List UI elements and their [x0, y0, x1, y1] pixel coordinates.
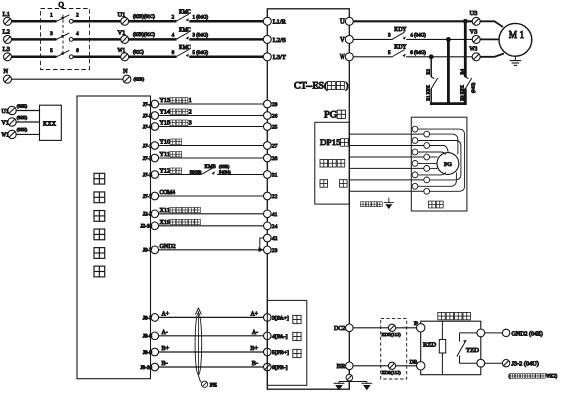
svg-text:B-: B- [162, 361, 168, 367]
svg-text:4: 4 [76, 31, 79, 37]
svg-text:RZD: RZD [423, 342, 437, 349]
svg-text:J8-8: J8-8 [143, 335, 153, 340]
terminal 25 [264, 123, 272, 131]
terminal W [345, 53, 353, 61]
vertical label micro-computer-control-unit [94, 173, 105, 184]
connector pin 6a [412, 183, 418, 189]
microcomputer control unit box [77, 96, 151, 379]
wire phase to KDY [353, 38, 392, 40]
svg-text:6: 6 [76, 48, 79, 54]
wire DC2 to P [353, 327, 417, 329]
wire Y11下行 [159, 157, 264, 159]
svg-text:V1: V1 [118, 30, 126, 37]
terminal L1/R [263, 17, 271, 25]
svg-text:B+: B+ [162, 346, 170, 352]
svg-text:J2-10: J2-10 [140, 225, 152, 230]
svg-text:2: 2 [76, 13, 79, 19]
wire Y10上行 [159, 145, 264, 147]
svg-text:V1: V1 [2, 120, 9, 126]
wire L3 to switch [12, 56, 57, 59]
svg-text:N: N [123, 68, 128, 75]
thermal switch TZD [460, 332, 481, 334]
branch A from W with contact R1 KFX [430, 57, 432, 77]
svg-text:26: 26 [272, 114, 278, 120]
terminal 41 [264, 210, 272, 218]
svg-text:BR: BR [337, 363, 347, 370]
terminal 6[PB-] [264, 363, 272, 371]
wire GND2 [159, 249, 264, 251]
terminal U1 [121, 17, 129, 25]
svg-text:A-: A- [162, 330, 168, 336]
svg-text:ZD5(11J): ZD5(11J) [382, 332, 402, 337]
resistor RZD [441, 321, 443, 339]
shorting vertical from V (thick) [447, 39, 450, 103]
svg-text:23: 23 [272, 248, 278, 254]
svg-text:N: N [4, 68, 9, 75]
svg-text:B-: B- [252, 361, 258, 367]
terminal U3 [472, 17, 480, 25]
wire Y13多段速1 [159, 103, 264, 105]
svg-text:DC2: DC2 [334, 325, 345, 332]
svg-text:KXX: KXX [43, 120, 57, 127]
wire U phase [353, 20, 472, 22]
svg-text:ZD3(11J): ZD3(11J) [382, 370, 402, 375]
connector pin 6b [424, 188, 430, 194]
wire KMC to L3 [189, 56, 263, 59]
svg-text:25: 25 [272, 125, 278, 131]
terminal GND2 (04E) [502, 329, 509, 336]
svg-text:J8-9: J8-9 [143, 351, 153, 356]
terminal J7-5 [151, 112, 159, 120]
svg-text:(01C): (01C) [133, 50, 144, 55]
vertical label fen-pin-ka [293, 315, 301, 323]
svg-text:R4: R4 [460, 68, 465, 74]
wire W1 to KXX [16, 133, 39, 135]
svg-text:(04G): (04G) [471, 82, 476, 93]
svg-text:53(83): 53(83) [190, 169, 202, 174]
terminal V1 to KXX [8, 118, 16, 126]
svg-text:J7-3: J7-3 [143, 173, 153, 178]
wire KDY to motor terminal [406, 38, 472, 40]
shorting branch from U with contact R3 KFX [464, 21, 467, 77]
box DP15 encoder interface [315, 122, 350, 204]
svg-text:(02B)(01C): (02B)(01C) [133, 15, 155, 20]
svg-text:U1: U1 [2, 109, 9, 115]
encoder wire 4 [349, 167, 424, 169]
inverter main box [267, 9, 349, 389]
wire KMC to L2 [189, 38, 263, 41]
terminal W1 to KXX [8, 130, 16, 138]
connector pin 4a [412, 161, 418, 167]
svg-text:COM4: COM4 [160, 189, 176, 196]
wire Y15多段速3 [159, 126, 264, 128]
svg-text:J8-7: J8-7 [143, 316, 153, 321]
svg-text:PG: PG [324, 110, 337, 120]
wire KDY to motor terminal [406, 56, 472, 58]
terminal DC2 [346, 324, 354, 332]
wire A+ [159, 316, 264, 318]
terminal N (02B) [123, 75, 131, 83]
svg-text:28: 28 [272, 156, 278, 162]
svg-text:42: 42 [272, 236, 278, 242]
terminal J8-8 [151, 332, 159, 340]
terminal ZD5(11J) [388, 324, 395, 331]
wire Y14多段速2 [159, 115, 264, 117]
svg-text:J7-2: J7-2 [143, 157, 153, 162]
svg-text:(03H): (03H) [17, 127, 28, 132]
shield drain wire to PE [198, 375, 201, 383]
svg-text:(02B): (02B) [134, 77, 145, 82]
terminal J2-2 [151, 210, 159, 218]
svg-text:CT--ES(: CT--ES( [294, 80, 327, 90]
svg-text:54(84): 54(84) [219, 170, 231, 175]
svg-text:27: 27 [272, 144, 278, 150]
encoder PG circle [437, 153, 459, 175]
svg-text:1: 1 [50, 13, 53, 19]
svg-text:J3-7: J3-7 [143, 249, 153, 254]
connector pin 1b [424, 131, 430, 137]
wire phase to KDY [353, 56, 392, 58]
svg-text:Q: Q [59, 0, 65, 9]
terminal 28 [264, 154, 272, 162]
svg-text:4 (04G): 4 (04G) [410, 34, 426, 39]
terminal 27 [264, 142, 272, 150]
svg-text:5[PB+]: 5[PB+] [272, 350, 289, 356]
connector pin 4b [424, 166, 430, 172]
svg-text:A+: A+ [162, 311, 170, 317]
svg-text:GND2 (04E): GND2 (04E) [512, 330, 543, 337]
terminal J8-10 [151, 363, 159, 371]
terminal U [345, 17, 353, 25]
terminal J3-7 [151, 246, 159, 254]
terminal J7-6 [151, 123, 159, 131]
svg-text:KDY: KDY [394, 27, 407, 33]
svg-text:KMC: KMC [179, 9, 191, 15]
svg-text:KMB: KMB [205, 164, 217, 170]
label connect-to-motor-case [361, 202, 366, 207]
svg-text:5: 5 [50, 48, 53, 54]
terminal L1 [4, 17, 12, 25]
wire V1 to KMC [129, 38, 177, 41]
ground symbol right [361, 382, 372, 384]
svg-text:3[PA+]: 3[PA+] [272, 315, 289, 321]
wire U1 to KXX [16, 110, 39, 112]
contact KMB [202, 167, 214, 174]
node TZD bottom [477, 359, 485, 367]
svg-text:): ) [345, 80, 348, 90]
svg-text:J7-5: J7-5 [143, 114, 153, 119]
wire V3 to motor [480, 38, 499, 40]
wire W3 to motor [480, 54, 504, 57]
wire switch to U21 [73, 38, 120, 41]
encoder wire 5 [349, 179, 424, 181]
terminal J8-9 [151, 348, 159, 356]
switch pole 1 [57, 15, 70, 21]
svg-text:L1: L1 [3, 11, 10, 18]
frequency divider card box [267, 300, 307, 385]
motor case ground symbol [388, 198, 390, 203]
encoder wire 3 [349, 156, 424, 158]
svg-text:3: 3 [189, 120, 192, 127]
label braking resistor [438, 312, 445, 319]
wire L1 to switch [12, 20, 57, 23]
shield cable ellipse [195, 313, 202, 375]
terminal W1 [121, 53, 129, 61]
terminal 24 [264, 222, 272, 230]
terminal 4[PA-] [264, 332, 272, 340]
terminal 22 [264, 192, 272, 200]
svg-text:1: 1 [189, 97, 192, 104]
wire L2 to switch [12, 38, 57, 41]
svg-text:KMC: KMC [179, 27, 191, 33]
Q linkage dashed line [62, 15, 64, 54]
terminal 42 [264, 234, 272, 242]
svg-text:B+: B+ [250, 346, 258, 352]
ground symbol left [334, 382, 345, 384]
shield box [411, 117, 467, 211]
svg-text:U3: U3 [470, 10, 479, 17]
wire V1 to KXX [16, 121, 39, 123]
terminal L2/S [263, 35, 271, 43]
svg-text:A-: A- [252, 330, 258, 336]
svg-text:W3: W3 [470, 46, 478, 53]
svg-text:R2: R2 [426, 68, 431, 74]
connector pin 3a [412, 149, 418, 155]
terminal W3 [472, 53, 480, 61]
terminal J7-2 [151, 154, 159, 162]
svg-text:1 (04G): 1 (04G) [193, 16, 209, 21]
junction dot V [446, 37, 451, 42]
svg-text:2: 2 [172, 15, 175, 21]
terminal BR [346, 362, 354, 370]
terminal J7-1 [151, 142, 159, 150]
terminal 23 [264, 246, 272, 254]
connector pin 5b [424, 177, 430, 183]
junction dot U [463, 19, 468, 24]
svg-text:Y13: Y13 [160, 97, 171, 104]
svg-text:DB: DB [410, 359, 418, 365]
svg-text:U: U [340, 19, 345, 26]
svg-text:29: 29 [272, 102, 278, 108]
filter box KXX [40, 105, 62, 140]
svg-text:R3 KFX: R3 KFX [460, 84, 465, 100]
svg-text:W1: W1 [2, 133, 9, 139]
wire N [12, 78, 123, 80]
connector pin 1a [412, 126, 418, 132]
encoder wire 6 [349, 190, 424, 192]
encoder pin wires to PG [418, 129, 465, 191]
terminal J7-4 [151, 100, 159, 108]
svg-text:WK2): WK2) [546, 373, 558, 380]
svg-text:4: 4 [172, 33, 175, 39]
terminal J3-2 (04U) [502, 360, 509, 367]
svg-text:J7-6: J7-6 [143, 125, 153, 130]
wire X11变频器故障 [159, 213, 264, 215]
svg-text:GND2: GND2 [160, 243, 176, 250]
svg-text:A+: A+ [250, 311, 258, 317]
node DB [417, 362, 425, 370]
svg-text:X19: X19 [160, 219, 171, 226]
wire switch to U31 [73, 56, 120, 59]
wire A- [159, 335, 264, 337]
svg-text:24: 24 [272, 224, 278, 230]
terminal 26 [264, 112, 272, 120]
terminal L3/T [263, 53, 271, 61]
svg-text:L1/R: L1/R [273, 19, 287, 26]
svg-text:3: 3 [388, 33, 391, 39]
terminal U1 to KXX [8, 106, 16, 114]
encoder wire 2 [349, 145, 424, 147]
terminal V3 [472, 35, 480, 43]
svg-text:4[PA-]: 4[PA-] [272, 334, 288, 340]
terminal V1 [121, 35, 129, 43]
wire U3 to motor [480, 21, 503, 27]
svg-text:22: 22 [272, 194, 278, 200]
svg-text:Y10: Y10 [160, 139, 171, 146]
motor ground [514, 56, 516, 60]
wire B+ [159, 351, 264, 353]
svg-text:J2-2: J2-2 [143, 213, 153, 218]
dashed terminal box [381, 319, 407, 379]
svg-text:3 (04G): 3 (04G) [193, 34, 209, 39]
junction dot W [429, 54, 434, 59]
wire X19变频器运行 [159, 225, 264, 227]
wire KMC to L1 [189, 20, 263, 23]
connector pin 2a [412, 138, 418, 144]
node P [417, 324, 425, 332]
switch pole 2 [57, 33, 70, 40]
svg-text:M 1: M 1 [509, 30, 524, 41]
connector pin 5a [412, 172, 418, 178]
wire COM4 [159, 195, 264, 197]
svg-text:W1: W1 [118, 47, 126, 54]
svg-text:X11: X11 [160, 207, 171, 214]
breaker Q dashed box [41, 9, 90, 70]
svg-text:L3: L3 [3, 46, 11, 53]
svg-text:6: 6 [172, 50, 175, 56]
terminal N [4, 75, 12, 83]
wire U1 to KMC [129, 20, 177, 23]
terminal J7-3 [151, 171, 159, 179]
svg-text:KMC: KMC [179, 45, 191, 51]
svg-text:W: W [340, 54, 345, 61]
svg-text:J3-2 (04U): J3-2 (04U) [512, 361, 539, 368]
terminal 31 [264, 171, 272, 179]
terminal 3[PA+] [264, 314, 272, 322]
svg-text:5: 5 [388, 50, 391, 56]
svg-text:J8-10: J8-10 [140, 366, 152, 371]
svg-text:Y14: Y14 [160, 109, 171, 116]
svg-text:P: P [414, 321, 418, 327]
svg-text:3: 3 [50, 31, 53, 37]
terminal ZD3(11J) [388, 362, 395, 369]
switch pole 3 [57, 50, 70, 57]
node TZD top [477, 329, 485, 337]
svg-text:DP15: DP15 [320, 137, 341, 147]
shorting bottom bar [430, 102, 467, 105]
svg-text:L2/S: L2/S [273, 37, 287, 44]
svg-text:2: 2 [189, 109, 192, 116]
terminal J8-7 [151, 314, 159, 322]
svg-text:PG: PG [444, 162, 452, 168]
braking resistor module box [421, 321, 481, 375]
svg-text:31: 31 [272, 173, 278, 179]
svg-text:V: V [340, 37, 345, 44]
BR ground connection [348, 370, 350, 375]
svg-text:L2: L2 [3, 29, 10, 36]
svg-text:Y15: Y15 [160, 120, 171, 127]
svg-text:KDY: KDY [394, 45, 407, 51]
wire switch to U11 [73, 20, 120, 23]
terminal L2 [4, 35, 12, 43]
svg-text:U1: U1 [118, 12, 126, 19]
svg-text:6[PB-]: 6[PB-] [272, 365, 288, 371]
svg-text:J7-7: J7-7 [143, 195, 153, 200]
svg-text:PE: PE [210, 384, 217, 389]
svg-text:41: 41 [272, 212, 278, 218]
svg-text:R1 KFX: R1 KFX [426, 84, 431, 100]
wire to GND2 terminal [485, 332, 503, 334]
terminal 5[PB+] [264, 348, 272, 356]
svg-text:J7-4: J7-4 [143, 103, 153, 108]
connector pin 2b [424, 143, 430, 149]
svg-text:(03H): (03H) [17, 103, 28, 108]
arrow junction into 23 [259, 247, 264, 252]
svg-text:(05B): (05B) [219, 164, 230, 169]
terminal PE [202, 381, 208, 387]
terminal 29 [264, 100, 272, 108]
wire B- [159, 366, 264, 368]
wire to J3-2 terminal [485, 362, 503, 364]
svg-text:TZD: TZD [466, 347, 480, 354]
encoder wire 1 [349, 133, 424, 135]
svg-text:V3: V3 [470, 28, 479, 35]
terminal V [345, 35, 353, 43]
wire BR to DB [353, 365, 417, 367]
terminal J2-10 [151, 222, 159, 230]
svg-text:J7-1: J7-1 [143, 144, 153, 149]
svg-text:L3/T: L3/T [273, 54, 286, 61]
terminal L3 [4, 53, 12, 61]
motor M1 [499, 23, 532, 56]
wire Y12使能 [159, 174, 202, 176]
svg-text:(02B)(01C): (02B)(01C) [133, 33, 155, 38]
svg-text:5 (04G): 5 (04G) [193, 51, 209, 56]
wire 42 to 23 hook [260, 238, 264, 248]
svg-text:6 (04G): 6 (04G) [410, 51, 426, 56]
terminal J7-7 [151, 192, 159, 200]
svg-text:Y12: Y12 [160, 168, 171, 175]
connector pin 3b [424, 154, 430, 160]
svg-text:(03H): (03H) [17, 115, 28, 120]
wire W1 to KMC [129, 56, 177, 59]
svg-text:Y11: Y11 [160, 151, 171, 158]
